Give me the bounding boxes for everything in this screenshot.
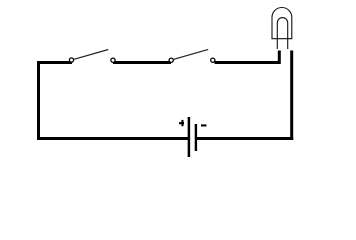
lamp L1 inner post/filament (inverted U with leads through base) xyxy=(277,18,287,49)
switch S1 right terminal xyxy=(111,58,115,62)
battery B1 positive plate (long) xyxy=(188,117,191,157)
battery B1 negative plate (short) xyxy=(195,124,197,151)
switch S1 left terminal xyxy=(69,58,73,62)
switch S2 left terminal xyxy=(169,58,173,62)
lamp L1 outer envelope (dome-topped bulb with base line) xyxy=(272,8,292,39)
wire: bottom-left horizontal segment (to battery positive plate) xyxy=(37,137,188,140)
wire: top-right segment (switch S2 to lamp left lead) with corner up xyxy=(215,51,280,63)
battery + label xyxy=(179,120,184,126)
switch S2 arm (open, angled up-right) xyxy=(174,49,208,59)
wire: right vertical side (lamp right lead down to bottom) xyxy=(290,51,293,141)
wire: bottom-right horizontal segment (battery negative plate to right corner) xyxy=(196,137,294,140)
wire: left vertical side xyxy=(37,61,40,140)
switch S2 right terminal xyxy=(211,58,215,62)
wire: top-left horizontal segment (loop corner to switch S1 left terminal) xyxy=(37,61,72,64)
wire: top middle segment (between switch S1 and switch S2) xyxy=(113,61,171,64)
switch S1 arm (open, angled up-right) xyxy=(74,50,108,60)
battery − label xyxy=(201,124,207,126)
